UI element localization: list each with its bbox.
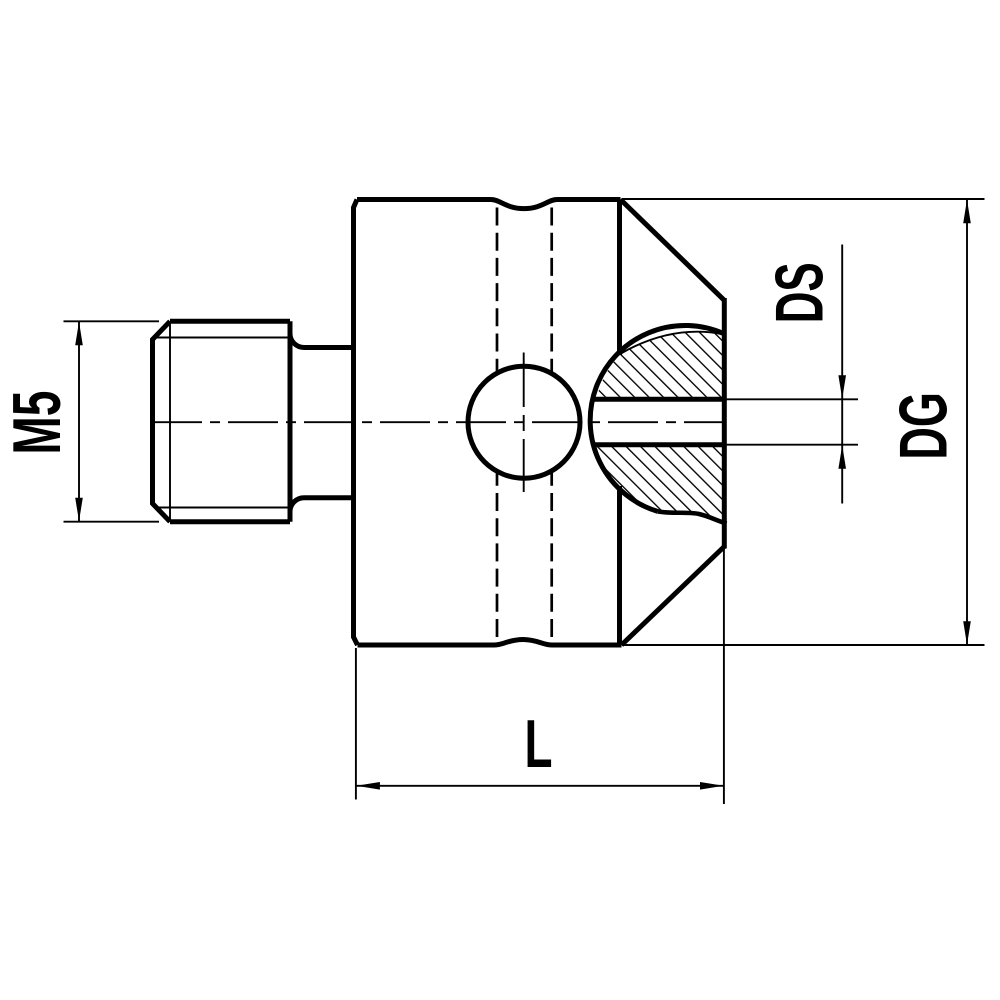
cone chamfer bottom slope bbox=[622, 547, 725, 646]
body top edge with break bbox=[357, 200, 621, 209]
M5 dimension line bbox=[78, 322, 80, 521]
ball seat edge thin arc bbox=[620, 332, 724, 354]
hidden line right upper bbox=[550, 208, 553, 373]
ball outline arc bbox=[590, 325, 724, 511]
M5 arrow down bbox=[75, 498, 83, 522]
stud M5 right edge bbox=[288, 321, 293, 521]
hidden line right lower bbox=[550, 473, 553, 637]
neck fillet bottom bbox=[290, 498, 354, 512]
DG arrow down bbox=[963, 621, 971, 645]
svg-text:DG: DG bbox=[887, 392, 962, 460]
DS extension line bottom bbox=[727, 444, 858, 446]
svg-text:M5: M5 bbox=[0, 391, 75, 455]
centerline vertical of bore circle bbox=[523, 353, 525, 493]
cone chamfer top slope bbox=[621, 200, 725, 301]
DG extension line top bbox=[622, 198, 985, 200]
L arrow right bbox=[700, 782, 724, 790]
stud M5 left side with chamfers bbox=[153, 321, 171, 521]
neck fillet top bbox=[290, 334, 354, 348]
body left edge with chamfers bbox=[354, 200, 358, 646]
M5 extension line bottom bbox=[64, 521, 160, 523]
DG extension line bottom bbox=[622, 644, 985, 646]
DG arrow up bbox=[963, 200, 971, 224]
hatched section upper (ball cross-section above slot) bbox=[597, 332, 723, 397]
thread line top bbox=[154, 337, 290, 339]
slot top edge bbox=[594, 397, 727, 402]
right face edge bbox=[722, 298, 727, 549]
bore circle bbox=[468, 366, 580, 478]
M5 extension line top bbox=[64, 320, 160, 322]
DG dimension line bbox=[966, 200, 968, 646]
L dimension line bbox=[357, 785, 724, 787]
stud M5 top edge bbox=[170, 319, 290, 324]
body bottom edge with break bbox=[358, 640, 622, 646]
stud M5 bottom edge bbox=[170, 519, 290, 524]
slot bottom edge bbox=[595, 442, 727, 447]
M5 arrow up bbox=[75, 322, 83, 346]
hidden line left upper bbox=[496, 208, 499, 372]
centerline horizontal axis bbox=[152, 421, 727, 423]
svg-text:L: L bbox=[525, 707, 553, 782]
hidden line left lower bbox=[496, 474, 499, 638]
stud chamfer line bbox=[169, 322, 171, 521]
ball break wavy line bbox=[658, 512, 727, 524]
L arrow left bbox=[356, 782, 380, 790]
DS arrow down to slot top bbox=[838, 375, 846, 399]
DS extension line top bbox=[727, 398, 858, 400]
body right edge lower segment bbox=[617, 486, 622, 645]
L extension line left bbox=[355, 648, 357, 800]
DS dimension line bbox=[841, 245, 843, 504]
DS arrow up to slot bottom bbox=[838, 445, 846, 469]
L extension line right bbox=[723, 548, 725, 805]
body right edge upper segment bbox=[617, 200, 622, 356]
thread line bottom bbox=[156, 507, 290, 509]
svg-text:DS: DS bbox=[763, 262, 838, 323]
hatched section lower (ball cross-section below slot) bbox=[597, 447, 725, 523]
